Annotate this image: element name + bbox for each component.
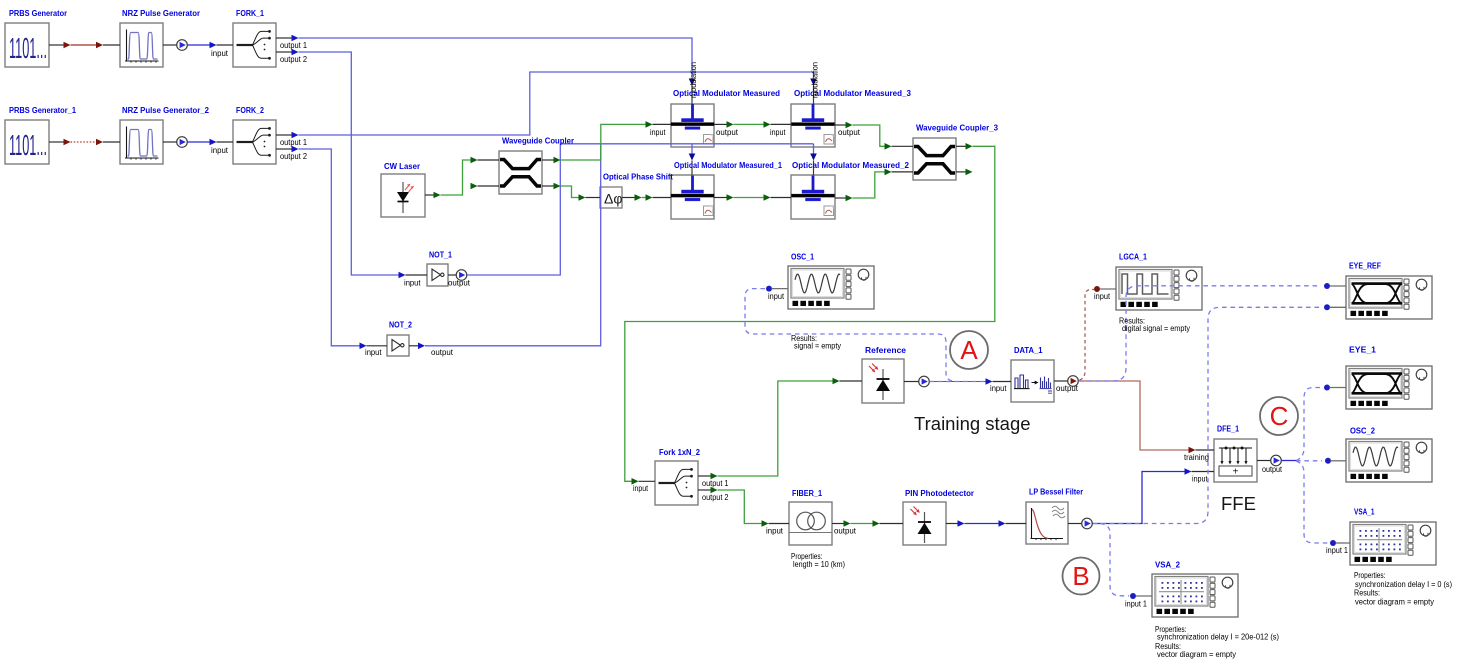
wire DATA_1 output to DFE_1 training	[1079, 381, 1189, 450]
svg-text:FIBER_1: FIBER_1	[792, 488, 822, 498]
svg-text:Optical Modulator Measured_2: Optical Modulator Measured_2	[792, 160, 909, 170]
PIN Photodetector	[903, 502, 946, 545]
svg-text:DFE_1: DFE_1	[1217, 424, 1239, 434]
svg-text:input: input	[211, 49, 229, 58]
svg-text:Waveguide Coupler_3: Waveguide Coupler_3	[916, 123, 998, 133]
DATA_1	[1011, 360, 1054, 402]
wire NRZ Pulse Generator to FORK_1 input	[163, 44, 177, 46]
PRBS Generator	[5, 23, 49, 67]
svg-text:modulation: modulation	[689, 62, 698, 98]
svg-text:FORK_2: FORK_2	[236, 105, 264, 115]
svg-text:NRZ Pulse Generator: NRZ Pulse Generator	[122, 8, 201, 18]
Optical Modulator Measured_3	[791, 104, 835, 147]
svg-text:Optical Modulator Measured_1: Optical Modulator Measured_1	[674, 160, 782, 170]
drop wire to Optical Modulator Measured_2 modulation	[813, 144, 815, 154]
EYE_REF	[1346, 276, 1432, 319]
wire FORK_1 output 1 to Optical Modulator Measured modulation	[299, 38, 693, 79]
svg-text:output: output	[431, 348, 454, 357]
svg-text:Training stage: Training stage	[914, 413, 1031, 434]
svg-text:PRBS Generator: PRBS Generator	[9, 8, 68, 18]
svg-text:vector diagram = empty: vector diagram = empty	[1157, 650, 1236, 659]
wire Waveguide Coupler output 1 to Optical Modulator Measured input	[561, 124, 646, 160]
wire NRZ Pulse Generator_2 to FORK_2 input	[163, 141, 177, 143]
svg-text:Reference: Reference	[865, 345, 906, 355]
wire Fork 1xN_2 output 2 to FIBER_1 input	[718, 490, 762, 524]
OSC_2 input node	[1325, 458, 1331, 464]
LP Bessel Filter output monitor	[1068, 523, 1082, 525]
svg-text:Optical Phase Shift: Optical Phase Shift	[603, 172, 673, 182]
dashed wire DATA_1 output to LGCA_1 input	[1080, 290, 1095, 381]
svg-text:output 1: output 1	[280, 41, 307, 50]
dashed wire OSC_1 input tap	[745, 289, 954, 381]
svg-text:input: input	[211, 146, 229, 155]
svg-text:FORK_1: FORK_1	[236, 8, 264, 18]
FORK_2	[233, 120, 276, 164]
svg-text:input: input	[768, 292, 785, 301]
wire Optical Modulator Measured_2 output to Waveguide Coupler_3 input 2	[835, 197, 846, 199]
Fork 1xN_2	[655, 461, 698, 505]
Reference	[862, 359, 904, 403]
svg-text:CW Laser: CW Laser	[384, 161, 421, 171]
svg-text:training: training	[1184, 453, 1209, 462]
svg-text:output 2: output 2	[280, 55, 307, 64]
EYE_1 input node	[1324, 385, 1330, 391]
svg-text:output: output	[834, 527, 857, 536]
wire Waveguide Coupler_3 output 1 to Fork 1xN_2 input	[625, 146, 995, 481]
svg-text:output 2: output 2	[280, 152, 307, 161]
VSA_2 input node	[1130, 593, 1136, 599]
Optical Modulator Measured	[671, 104, 714, 147]
svg-text:A: A	[960, 335, 978, 365]
svg-text:1101...: 1101...	[9, 130, 47, 162]
svg-text:output: output	[1262, 465, 1283, 474]
svg-text:length = 10 (km): length = 10 (km)	[793, 560, 845, 569]
FORK_1 output port stubs	[276, 37, 292, 39]
Optical Phase Shift	[600, 187, 622, 208]
Waveguide Coupler_3	[913, 138, 956, 180]
VSA_2	[1152, 574, 1238, 617]
svg-text:+: +	[1233, 467, 1239, 478]
circle A marker	[950, 331, 988, 369]
wire FORK_1 output 2 to NOT_1 input	[299, 52, 399, 275]
svg-text:input: input	[770, 128, 786, 137]
OSC_1 input node	[766, 286, 772, 292]
DATA_1 output monitor	[1054, 380, 1068, 382]
Waveguide Coupler output ports	[542, 159, 554, 161]
svg-text:output: output	[838, 128, 861, 137]
svg-text:EYE_REF: EYE_REF	[1349, 261, 1381, 271]
svg-text:LGCA_1: LGCA_1	[1119, 252, 1147, 262]
wire PIN Photodetector output to LP Bessel Filter input	[946, 523, 958, 525]
dashed wire DFE_1 output to EYE_1 input	[1296, 388, 1322, 461]
EYE_REF input nodes	[1324, 283, 1330, 289]
LGCA_1 input node	[1094, 286, 1100, 292]
LP Bessel Filter	[1026, 502, 1068, 544]
wire CW Laser output to Waveguide Coupler input 1	[425, 194, 434, 196]
svg-text:digital signal = empty: digital signal = empty	[1122, 324, 1190, 333]
LGCA_1	[1116, 267, 1202, 310]
FIBER_1	[789, 502, 832, 545]
wire NOT_2 output to modulation bus	[425, 144, 601, 346]
wire Optical Modulator Measured output to Optical Modulator Measured_3 input	[714, 123, 727, 125]
wire DFE_1 output solid segment	[1282, 460, 1297, 462]
svg-text:PIN Photodetector: PIN Photodetector	[905, 488, 975, 498]
dashed wire DFE_1 output to OSC_2 input	[1296, 460, 1322, 462]
svg-text:input: input	[766, 527, 784, 536]
Waveguide Coupler	[499, 151, 542, 194]
svg-text:NOT_1: NOT_1	[429, 250, 452, 260]
svg-text:input 1: input 1	[1125, 600, 1147, 609]
wire Optical Phase Shift output to Optical Modulator Measured_1 input	[622, 197, 635, 199]
NOT_1	[427, 264, 448, 286]
svg-text:1101...: 1101...	[9, 33, 47, 65]
PRBS Generator_1	[5, 120, 49, 164]
wire FORK_2 output 2 to NOT_2 input	[299, 149, 360, 346]
circle B marker	[1063, 558, 1100, 595]
svg-text:Waveguide Coupler: Waveguide Coupler	[502, 136, 575, 146]
Waveguide Coupler_3 output ports	[956, 145, 966, 147]
NRZ Pulse Generator_2	[120, 120, 163, 164]
dashed wire LP Bessel Filter output to VSA_2 input	[1100, 524, 1129, 596]
wire Optical Modulator Measured_1 output to Optical Modulator Measured_2 input	[714, 197, 727, 199]
Reference output monitor	[904, 381, 919, 383]
svg-text:Δφ: Δφ	[604, 191, 622, 207]
svg-text:NOT_2: NOT_2	[389, 320, 412, 330]
svg-text:output: output	[448, 279, 471, 288]
svg-text:synchronization delay I = 20e-: synchronization delay I = 20e-012 (s)	[1157, 633, 1279, 642]
dashed wire LP Bessel Filter output to EYE_REF input 2	[1093, 307, 1321, 523]
circle C marker	[1260, 397, 1298, 435]
svg-text:FFE: FFE	[1221, 493, 1256, 514]
svg-text:EYE_1: EYE_1	[1349, 345, 1376, 355]
svg-text:output: output	[716, 128, 739, 137]
VSA_1	[1350, 522, 1436, 565]
svg-text:input: input	[633, 484, 649, 493]
svg-text:Fork 1xN_2: Fork 1xN_2	[659, 447, 700, 457]
DFE_1 output monitor	[1257, 460, 1271, 462]
svg-text:input: input	[990, 384, 1007, 393]
wire Optical Modulator Measured_3 output to Waveguide Coupler_3 input 1	[835, 124, 846, 126]
FORK_1	[233, 23, 276, 67]
wire PRBS Generator to NRZ Pulse Generator	[49, 44, 64, 46]
svg-text:VSA_2: VSA_2	[1155, 560, 1180, 570]
wire Reference output to DATA_1 input	[930, 381, 986, 383]
svg-text:input: input	[650, 128, 666, 137]
svg-text:C: C	[1270, 401, 1289, 431]
svg-text:B: B	[1072, 561, 1089, 591]
svg-text:VSA_1: VSA_1	[1354, 507, 1375, 517]
EYE_1	[1346, 366, 1432, 409]
drop wire to Optical Modulator Measured_1 modulation	[691, 144, 693, 154]
svg-text:output 1: output 1	[702, 479, 729, 488]
svg-text:input: input	[365, 348, 382, 357]
svg-text:Properties:: Properties:	[1354, 571, 1386, 580]
VSA_1 input node	[1330, 540, 1336, 546]
Fork 1xN_2 output stubs	[698, 475, 711, 477]
wire FIBER_1 output to PIN Photodetector input	[832, 523, 844, 525]
NOT_1 output monitor	[448, 274, 457, 276]
svg-text:LP Bessel Filter: LP Bessel Filter	[1029, 487, 1084, 497]
dashed wire DFE_1 output to VSA_1 input	[1296, 461, 1328, 543]
DFE_1	[1214, 439, 1257, 482]
svg-text:output 1: output 1	[280, 138, 307, 147]
svg-text:output 2: output 2	[702, 493, 729, 502]
Optical Modulator Measured_1	[671, 175, 714, 219]
wire LP Bessel Filter output to DFE_1 input	[1093, 472, 1185, 524]
svg-text:Results:: Results:	[1354, 589, 1380, 598]
modulation bus wire over modulators	[560, 143, 813, 145]
svg-text:input: input	[1192, 475, 1208, 484]
OSC_2	[1346, 439, 1432, 482]
CW Laser	[381, 174, 425, 217]
wire Fork 1xN_2 output 1 to Reference input	[718, 381, 833, 476]
svg-text:vector diagram = empty: vector diagram = empty	[1355, 598, 1434, 607]
svg-text:output: output	[1056, 384, 1079, 393]
Optical Modulator Measured_2	[791, 175, 835, 219]
wire NOT_1 output to modulation bus	[467, 144, 560, 275]
NOT_2 output port	[409, 345, 418, 347]
svg-text:NRZ Pulse Generator_2: NRZ Pulse Generator_2	[122, 105, 209, 115]
svg-text:DATA_1: DATA_1	[1014, 345, 1043, 355]
NOT_2	[387, 335, 409, 356]
dashed wire DATA_1 output to EYE_REF input 1	[1079, 286, 1321, 381]
svg-text:input: input	[1094, 292, 1111, 301]
svg-text:input 1: input 1	[1326, 546, 1348, 555]
svg-text:input: input	[404, 279, 421, 288]
svg-text:signal = empty: signal = empty	[794, 342, 841, 351]
Waveguide Coupler input 2 port	[471, 183, 478, 190]
FORK_2 output port stubs	[276, 134, 292, 136]
svg-text:PRBS Generator_1: PRBS Generator_1	[9, 105, 76, 115]
wire Waveguide Coupler output 2 to Optical Phase Shift input	[561, 186, 579, 198]
wire FORK_2 output 1 to Optical Modulator Measured_3 modulation	[299, 72, 814, 135]
svg-text:modulation: modulation	[811, 62, 820, 98]
NRZ Pulse Generator	[120, 23, 163, 67]
svg-text:OSC_1: OSC_1	[791, 252, 814, 262]
wire PRBS Generator_1 to NRZ Pulse Generator_2	[49, 141, 64, 143]
OSC_1	[788, 266, 874, 309]
svg-text:OSC_2: OSC_2	[1350, 426, 1375, 436]
